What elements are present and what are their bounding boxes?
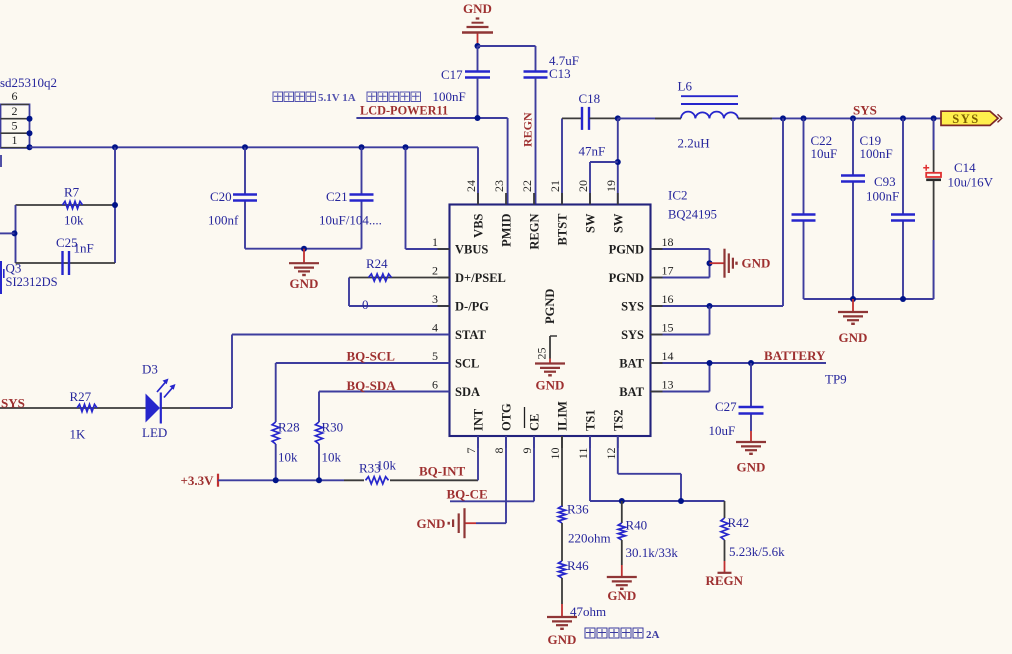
resistor R7 xyxy=(63,201,83,208)
svg-text:100nF: 100nF xyxy=(860,146,893,161)
svg-text:SYS: SYS xyxy=(952,112,979,126)
node SYS-pin16 riser x=783 xyxy=(780,115,786,121)
capacitor C27 xyxy=(739,406,764,408)
node bottom rail C19 xyxy=(850,296,856,302)
svg-text:BQ24195: BQ24195 xyxy=(668,208,717,222)
node C17-LCD wire xyxy=(475,115,481,121)
wire pin7 INT drop xyxy=(477,436,479,480)
inductor L6 lead right xyxy=(738,117,772,119)
svg-text:OTG: OTG xyxy=(500,403,514,431)
resistor R24 xyxy=(369,274,392,281)
wire OTG to gnd xyxy=(476,522,506,524)
pin stubs top xyxy=(478,193,618,205)
pin numbers 7-12 bottom xyxy=(464,448,618,460)
node GND tap x=304 xyxy=(301,246,307,252)
svg-text:REGN: REGN xyxy=(521,112,535,147)
inductor L6 xyxy=(681,96,738,118)
svg-text:C17: C17 xyxy=(441,67,463,82)
wire R24 left vertical xyxy=(348,278,350,307)
svg-text:TS2: TS2 xyxy=(611,409,625,431)
wire R30 column xyxy=(318,392,320,423)
svg-text:12: 12 xyxy=(604,448,618,460)
pin numbers 1-6 left xyxy=(432,235,438,392)
wire STAT drop x=232 xyxy=(231,335,233,409)
wire R7 row y=205 xyxy=(16,204,116,206)
svg-text:1: 1 xyxy=(12,133,18,147)
ground symbol internal pin25 xyxy=(549,359,551,364)
capacitor C14 electrolytic xyxy=(923,165,941,180)
svg-text:R42: R42 xyxy=(728,515,750,530)
wire LCD-POWER11 y=118 xyxy=(356,117,507,119)
svg-text:PMID: PMID xyxy=(500,214,514,247)
inductor L6 lead left xyxy=(655,117,681,119)
pin names top side xyxy=(472,213,626,250)
wire C17 bottom to LCD-POWER11 net xyxy=(477,78,479,119)
svg-text:GND: GND xyxy=(463,1,492,16)
svg-text:10u/16V: 10u/16V xyxy=(948,175,994,190)
wire pin14 BAT row / BATTERY net xyxy=(651,362,827,364)
wire pin4 STAT row xyxy=(232,334,450,336)
svg-text:Q3: Q3 xyxy=(6,261,22,276)
capacitor C93 branch xyxy=(902,118,904,214)
svg-text:BQ-CE: BQ-CE xyxy=(447,487,488,502)
wire VBUS rail drop to pin 24 xyxy=(477,147,479,204)
capacitor C13 xyxy=(524,70,548,72)
svg-text:SI2312DS: SI2312DS xyxy=(6,275,58,289)
wire BTST to C18 xyxy=(562,117,582,119)
svg-text:24: 24 xyxy=(464,180,478,192)
resistor R42 xyxy=(721,518,728,540)
wire pin6 SDA row xyxy=(319,391,450,393)
wire R42 to REGN port xyxy=(724,540,726,561)
svg-text:C13: C13 xyxy=(549,66,571,81)
svg-text:C93: C93 xyxy=(874,174,896,189)
svg-text:C14: C14 xyxy=(954,160,976,175)
svg-text:100nF: 100nF xyxy=(433,89,466,104)
svg-text:7: 7 xyxy=(464,448,478,454)
svg-text:SDA: SDA xyxy=(455,385,480,399)
svg-text:8: 8 xyxy=(492,448,506,454)
op-amp IC2 BQ24195 body xyxy=(450,205,651,437)
svg-text:30.1k/33k: 30.1k/33k xyxy=(626,545,679,560)
svg-text:5: 5 xyxy=(12,119,18,133)
svg-text:C18: C18 xyxy=(579,91,601,106)
svg-text:D-/PG: D-/PG xyxy=(455,300,489,314)
svg-text:STAT: STAT xyxy=(455,328,486,342)
svg-text:GND: GND xyxy=(417,516,446,531)
ground symbol below R40 xyxy=(621,565,623,577)
wire SYS caps bottom rail y=299 xyxy=(804,298,934,300)
wire C25 row y=263 xyxy=(16,262,116,264)
svg-text:+3.3V: +3.3V xyxy=(181,473,215,488)
node rail-pin1 x=405.5 xyxy=(403,144,409,150)
wire pin5 SCL row xyxy=(276,362,450,364)
pin names left side xyxy=(455,243,506,400)
node BAT tie xyxy=(707,360,713,366)
resistor R28 xyxy=(272,422,279,444)
svg-text:0: 0 xyxy=(362,297,369,312)
svg-text:BQ-INT: BQ-INT xyxy=(419,464,466,479)
svg-text:LED: LED xyxy=(142,425,167,440)
svg-text:R36: R36 xyxy=(567,502,589,517)
svg-text:GND: GND xyxy=(607,588,636,603)
node SYS-C14 x=933.6 xyxy=(931,115,937,121)
wire pin18 PGND row xyxy=(651,248,710,250)
svg-text:1: 1 xyxy=(432,235,438,249)
ground symbol below R46 xyxy=(561,604,563,617)
ground symbol sideways right of PGND xyxy=(710,262,725,264)
svg-text:220ohm: 220ohm xyxy=(568,531,611,546)
wire pin20 SW riser xyxy=(589,162,591,205)
svg-text:SCL: SCL xyxy=(455,357,479,371)
node SYS-C22 x=803.5 xyxy=(801,115,807,121)
svg-text:2.2uH: 2.2uH xyxy=(678,136,710,151)
wire R28 column xyxy=(275,363,277,422)
svg-text:23: 23 xyxy=(492,180,506,192)
svg-text:C27: C27 xyxy=(715,399,737,414)
connector P1 body xyxy=(1,104,30,147)
svg-text:REGN: REGN xyxy=(528,214,542,250)
wire LCD net drop to pin 23 xyxy=(507,118,509,205)
capacitor C21 xyxy=(350,193,374,195)
resistor R30 xyxy=(315,422,322,444)
capacitor C14 branch xyxy=(933,118,935,173)
wire pin17-pin18 vertical xyxy=(709,249,711,278)
svg-text:47nF: 47nF xyxy=(579,144,606,159)
svg-text:BAT: BAT xyxy=(619,385,644,399)
svg-text:D+/PSEL: D+/PSEL xyxy=(455,271,506,285)
capacitor C20 branch wire xyxy=(244,147,246,194)
svg-text:15: 15 xyxy=(662,321,674,335)
svg-text:VBS: VBS xyxy=(472,213,486,237)
svg-text:10k: 10k xyxy=(322,450,342,465)
node bottom rail C93 xyxy=(900,296,906,302)
wire pin15 SYS row xyxy=(651,334,710,336)
capacitor C17 xyxy=(465,70,490,72)
wire VBUS rail y=147 xyxy=(30,146,479,148)
wire stub at left edge xyxy=(0,155,2,167)
ground symbol below C27 xyxy=(750,431,752,442)
junction dots on connector pins 2/5/1 xyxy=(27,116,33,122)
wire R40 to gnd xyxy=(621,540,623,565)
svg-text:100nF: 100nF xyxy=(866,189,899,204)
svg-text:5.23k/5.6k: 5.23k/5.6k xyxy=(729,544,785,559)
node rail-C20 x=245 xyxy=(242,144,248,150)
svg-text:REGN: REGN xyxy=(706,573,744,588)
capacitor C21 branch wire xyxy=(361,147,363,194)
svg-text:17: 17 xyxy=(662,264,674,278)
resistor R46 xyxy=(558,561,565,578)
node R30 bottom xyxy=(316,477,322,483)
capacitor C22 xyxy=(792,213,816,215)
capacitor C27 branch xyxy=(750,363,752,407)
wire pin12 TS2 drop xyxy=(617,436,619,474)
svg-text:2: 2 xyxy=(12,104,18,118)
wire pin1 VBUS from rail xyxy=(405,147,407,249)
ground symbol top (inverted) xyxy=(477,33,479,47)
node R7-x115 xyxy=(112,202,118,208)
svg-text:SYS: SYS xyxy=(621,328,644,342)
svg-text:6: 6 xyxy=(12,89,18,103)
wire top gnd to C13 branch xyxy=(478,45,536,47)
svg-text:CE: CE xyxy=(528,414,542,431)
wire pin3 D-/PG row xyxy=(349,305,450,307)
node rail-C21 x=361.5 xyxy=(359,144,365,150)
overbar of CE pin name xyxy=(524,407,526,428)
svg-text:SW: SW xyxy=(611,213,625,233)
svg-text:5.1V 1A: 5.1V 1A xyxy=(318,92,356,104)
svg-text:14: 14 xyxy=(662,349,674,363)
node rail-R7 x=115 xyxy=(112,144,118,150)
wire pin9 CE drop xyxy=(533,436,535,501)
svg-text:R27: R27 xyxy=(70,389,92,404)
pin names bottom side xyxy=(472,401,626,431)
svg-text:R30: R30 xyxy=(322,420,344,435)
svg-text:R28: R28 xyxy=(278,420,300,435)
wire C17 top xyxy=(477,46,479,72)
pin stubs left xyxy=(438,249,450,392)
capacitor C19 branch xyxy=(852,118,854,175)
wire pin21 BTST riser xyxy=(561,118,563,204)
node PGND gnd tap xyxy=(707,260,713,266)
capacitor C19 xyxy=(841,174,865,176)
node TS-R40 xyxy=(619,498,625,504)
wire R42 column xyxy=(724,501,726,518)
svg-text:2: 2 xyxy=(432,264,438,278)
wire pin19 SW riser xyxy=(617,118,619,204)
wire +3.3V rail y=480.3 xyxy=(218,479,344,481)
pin stubs bottom xyxy=(478,436,618,448)
wire left vertical x=15.5 xyxy=(15,205,17,263)
wire C20-C21 bottom y=248.7 xyxy=(245,248,362,250)
svg-text:GND: GND xyxy=(548,632,577,647)
wire LED row y=408 xyxy=(190,407,232,409)
svg-text:2A: 2A xyxy=(646,629,660,641)
svg-text:10uF: 10uF xyxy=(709,423,736,438)
capacitor C22 branch xyxy=(803,118,805,214)
resistor R33 xyxy=(366,477,389,484)
svg-text:PGND: PGND xyxy=(609,243,644,257)
wire riser x=783 to SYS rail xyxy=(782,118,784,306)
wire C13 top xyxy=(535,46,537,72)
wire pin2 D+/PSEL row xyxy=(349,277,450,279)
pin numbers 18-13 right xyxy=(662,235,674,392)
svg-text:21: 21 xyxy=(548,180,562,192)
transistor Q3 partial symbol xyxy=(1,261,4,294)
wire TS row y=501 xyxy=(590,500,725,502)
svg-text:SYS: SYS xyxy=(1,396,25,411)
svg-text:10: 10 xyxy=(548,448,562,460)
svg-text:BTST: BTST xyxy=(556,213,570,246)
svg-text:L6: L6 xyxy=(678,79,693,94)
svg-text:D3: D3 xyxy=(142,362,158,377)
node Q3 gate tap xyxy=(12,230,18,236)
svg-text:SYS: SYS xyxy=(853,103,877,118)
svg-text:100nf: 100nf xyxy=(208,213,239,228)
wire pin10 ILIM column xyxy=(561,436,563,506)
svg-text:10uF/104....: 10uF/104.... xyxy=(319,213,382,228)
pin stubs right xyxy=(651,249,663,392)
wire BQ-CE row xyxy=(450,500,534,502)
svg-text:SYS: SYS xyxy=(621,300,644,314)
svg-text:9: 9 xyxy=(520,448,534,454)
svg-text:R24: R24 xyxy=(366,256,388,271)
svg-text:TP9: TP9 xyxy=(825,372,847,387)
svg-text:10k: 10k xyxy=(377,458,397,473)
capacitor C25 xyxy=(61,251,63,275)
svg-text:LCD-POWER11: LCD-POWER11 xyxy=(360,104,448,118)
node pin15 tie xyxy=(707,303,713,309)
svg-text:BAT: BAT xyxy=(619,357,644,371)
capacitor C18 xyxy=(581,107,583,130)
port SYS xyxy=(941,111,1002,126)
wire pin13 BAT row xyxy=(651,391,710,393)
ground symbol below SYS caps xyxy=(852,299,854,312)
wire pin16 SYS row to riser xyxy=(651,305,784,307)
wire SW node to L6 xyxy=(618,117,681,119)
node SYS-C19 x=853 xyxy=(850,115,856,121)
wire R40 column xyxy=(621,501,623,523)
capacitor C20 xyxy=(233,193,257,195)
svg-text:20: 20 xyxy=(576,180,590,192)
svg-text:TS1: TS1 xyxy=(584,409,598,431)
svg-text:22: 22 xyxy=(520,180,534,192)
svg-text:BQ-SDA: BQ-SDA xyxy=(347,378,397,393)
svg-text:10uF: 10uF xyxy=(811,146,838,161)
svg-text:R46: R46 xyxy=(567,558,589,573)
svg-text:25: 25 xyxy=(535,348,549,360)
node R28 bottom xyxy=(273,477,279,483)
svg-text:GND: GND xyxy=(839,330,868,345)
svg-text:C21: C21 xyxy=(326,189,348,204)
wire between R36 and R46 xyxy=(561,523,563,561)
svg-text:SW: SW xyxy=(584,213,598,233)
label chinese note 内部升压 5.1V 1A 不用此功能 xyxy=(273,92,421,104)
svg-text:5: 5 xyxy=(432,349,438,363)
wire C18 to SW node xyxy=(589,117,618,119)
label chinese note 限制电流在2A xyxy=(585,628,660,641)
wire pin11 TS1 drop xyxy=(589,436,591,501)
resistor R36 xyxy=(558,506,565,523)
node SW-C18 xyxy=(615,115,621,121)
node SYS-C93 x=903 xyxy=(900,115,906,121)
wire L6 to SYS port y=118 xyxy=(738,117,941,119)
port REGN bar xyxy=(724,561,726,573)
wire R46 to gnd xyxy=(561,578,563,604)
svg-text:19: 19 xyxy=(604,180,618,192)
node TS-TS2 xyxy=(678,498,684,504)
svg-text:IC2: IC2 xyxy=(668,188,688,203)
svg-text:INT: INT xyxy=(472,408,486,431)
diode D3 LED xyxy=(146,379,176,424)
svg-text:18: 18 xyxy=(662,235,674,249)
port +3.3V bar xyxy=(217,474,219,487)
svg-text:sd25310q2: sd25310q2 xyxy=(0,75,57,90)
resistor R40 xyxy=(618,523,625,540)
svg-text:BATTERY: BATTERY xyxy=(764,348,826,363)
ground symbol sideways left of OTG xyxy=(465,522,477,524)
node BAT-C27 xyxy=(748,360,754,366)
svg-text:GND: GND xyxy=(737,460,766,475)
svg-text:ILIM: ILIM xyxy=(556,401,570,431)
ground symbol below C20/C21 xyxy=(303,249,305,264)
svg-text:13: 13 xyxy=(662,378,674,392)
svg-text:10k: 10k xyxy=(64,213,84,228)
svg-text:11: 11 xyxy=(576,448,590,460)
svg-text:PGND: PGND xyxy=(543,289,557,324)
wire pin17 PGND row xyxy=(651,277,710,279)
pin numbers 24-19 top xyxy=(464,180,618,192)
svg-text:GND: GND xyxy=(742,256,771,271)
pin 25 stub xyxy=(549,336,551,359)
svg-text:PGND: PGND xyxy=(609,271,644,285)
svg-text:R40: R40 xyxy=(626,518,648,533)
wire vertical x=115 from rail to C25 row xyxy=(114,147,116,263)
node top gnd junction xyxy=(475,43,481,49)
svg-text:1nF: 1nF xyxy=(74,241,94,256)
svg-text:GND: GND xyxy=(290,276,319,291)
svg-text:C20: C20 xyxy=(210,189,232,204)
wire pin8 OTG drop xyxy=(505,436,507,523)
node SW pin20 tap xyxy=(615,159,621,165)
capacitor C93 xyxy=(891,213,915,215)
wire C13 bottom to pin 22 REGN xyxy=(535,78,537,205)
svg-text:BQ-SCL: BQ-SCL xyxy=(347,349,396,364)
svg-text:3: 3 xyxy=(432,292,438,306)
svg-text:R7: R7 xyxy=(64,185,80,200)
svg-text:VBUS: VBUS xyxy=(455,243,488,257)
svg-text:1K: 1K xyxy=(70,427,87,442)
svg-text:6: 6 xyxy=(432,378,438,392)
svg-text:GND: GND xyxy=(536,378,565,393)
pin names right side xyxy=(609,243,645,400)
resistor R27 xyxy=(77,404,97,411)
svg-text:10k: 10k xyxy=(278,450,298,465)
svg-text:4: 4 xyxy=(432,321,438,335)
svg-text:16: 16 xyxy=(662,292,674,306)
wire Q3 gate stub xyxy=(0,232,15,234)
